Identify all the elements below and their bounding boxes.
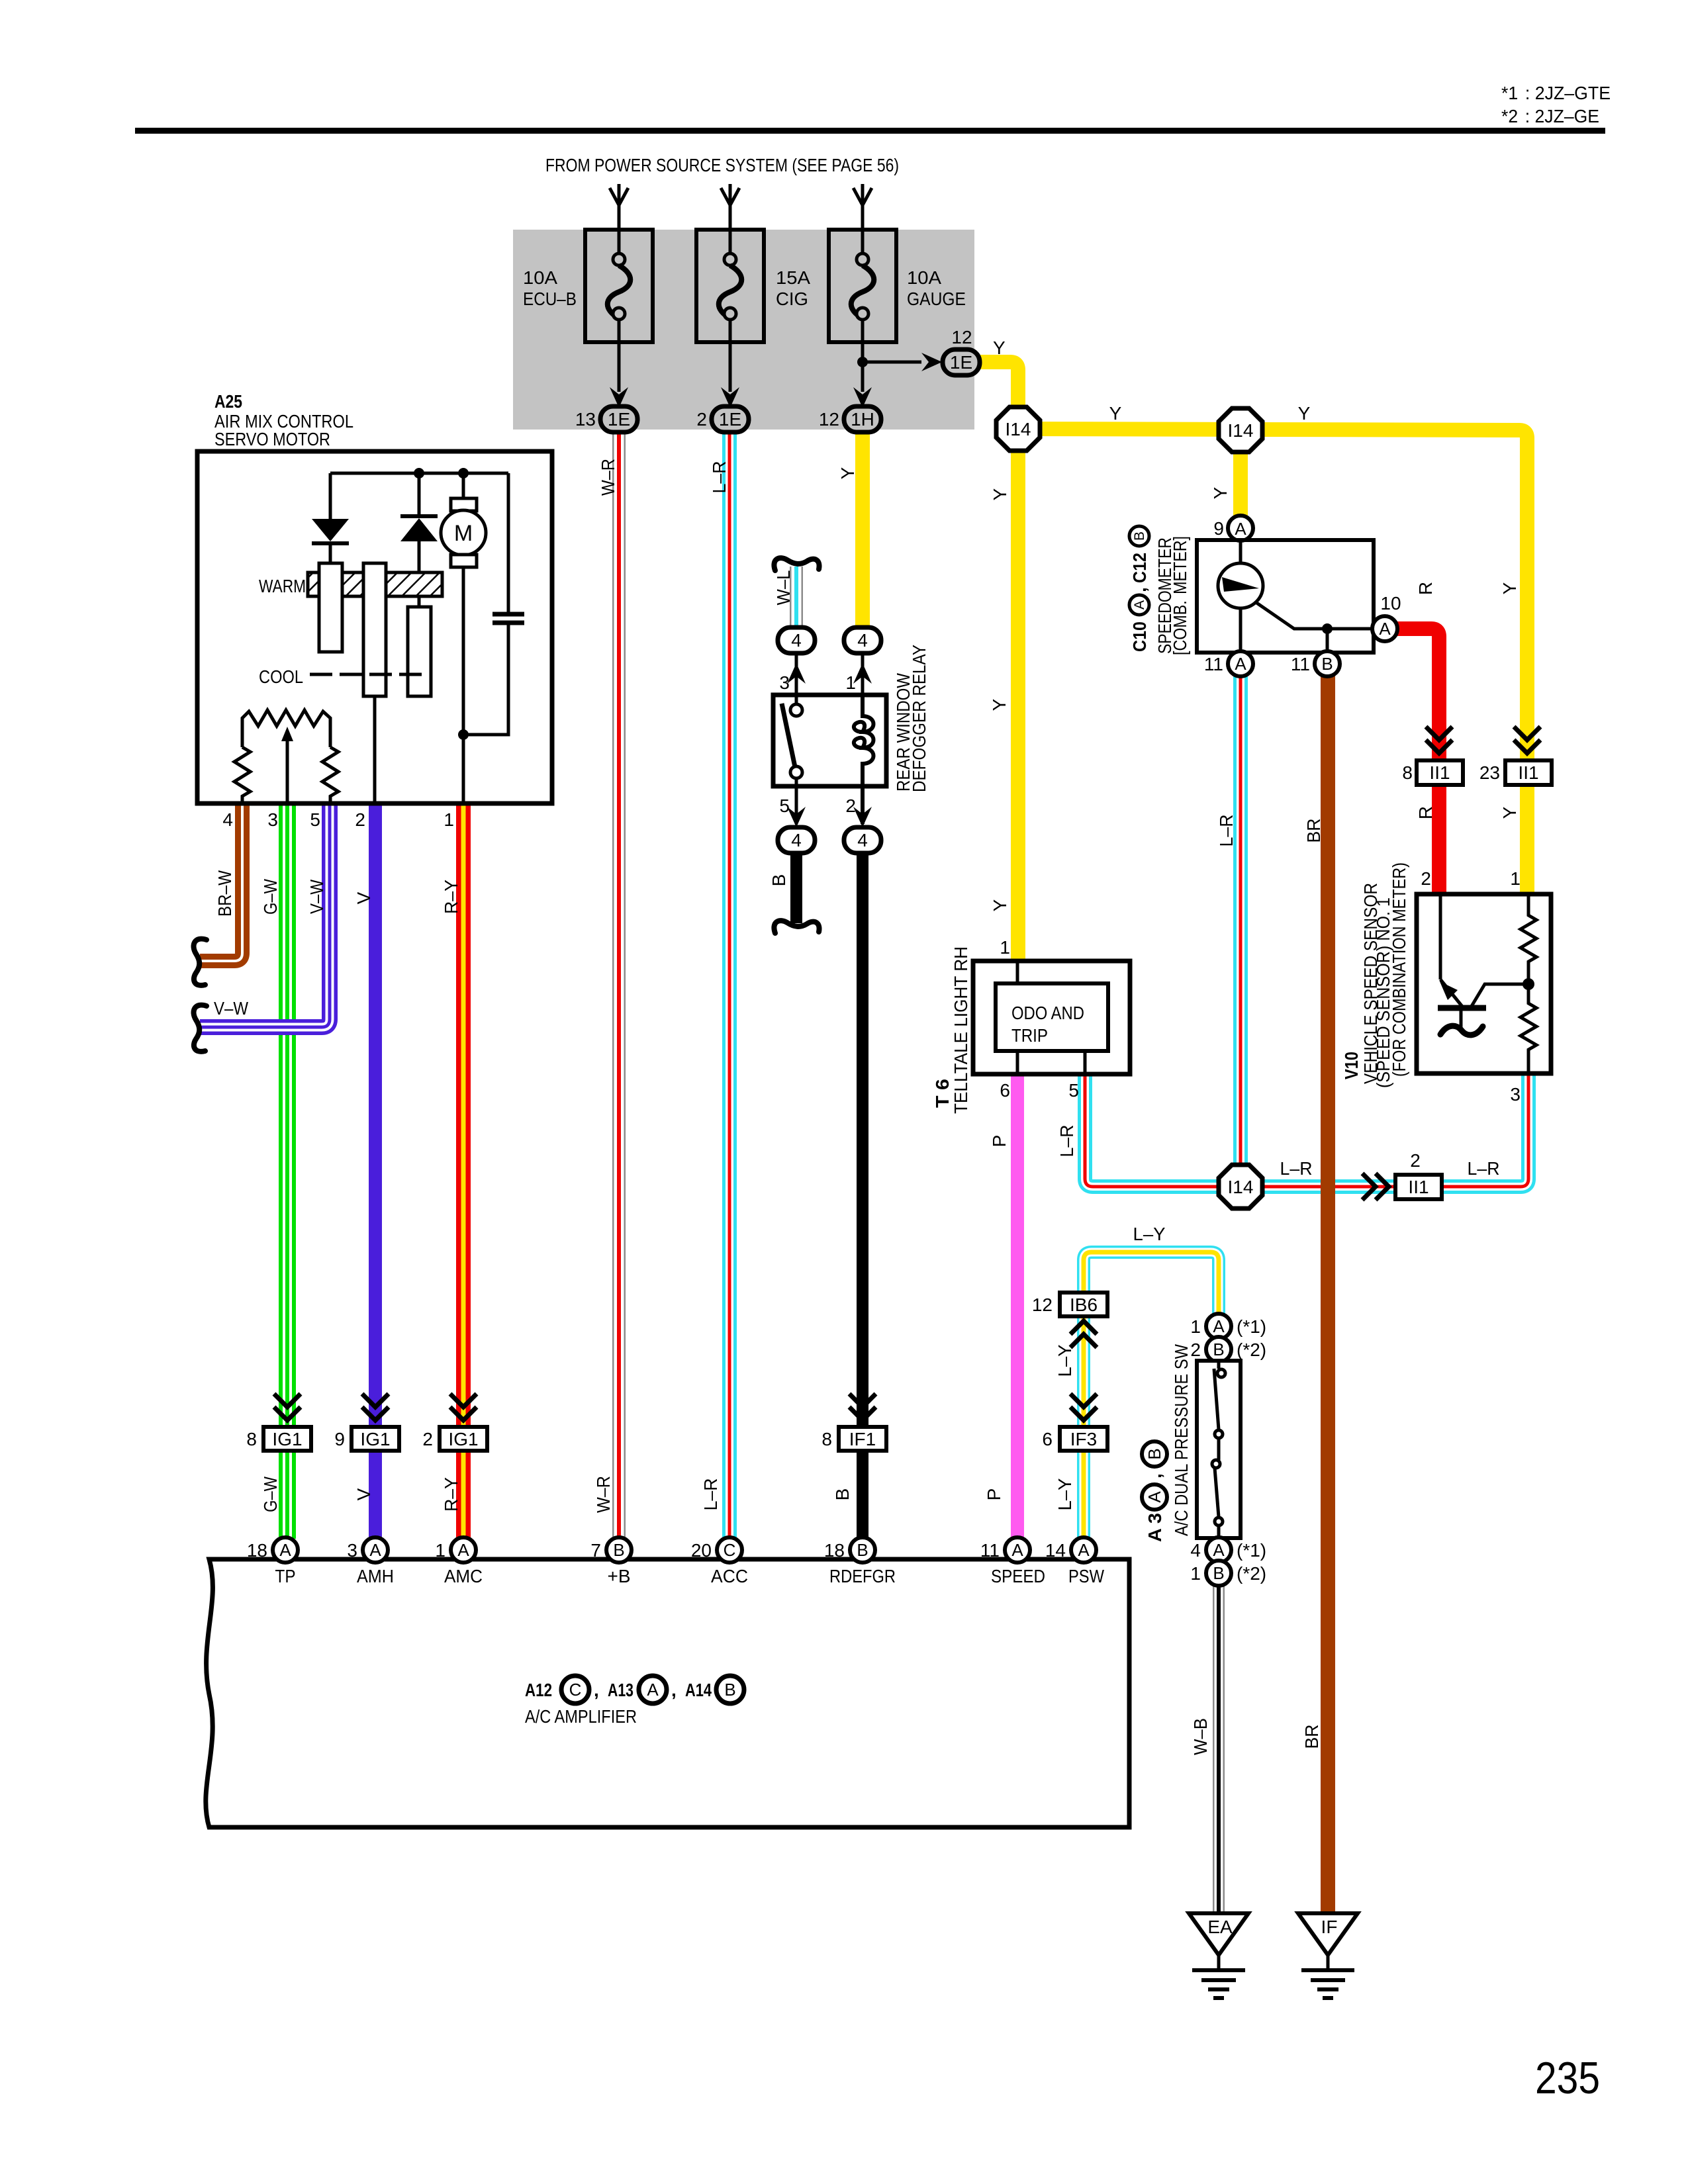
svg-text:R: R [1415, 582, 1436, 595]
svg-text:B: B [724, 1680, 735, 1700]
svg-text:A13: A13 [608, 1680, 633, 1700]
transistor base lead [1471, 984, 1528, 1007]
svg-text:T 6: T 6 [932, 1079, 953, 1108]
wire Y II1-23 to V10 pin 1 [1520, 785, 1534, 894]
wire T6 pin1 [1016, 961, 1019, 983]
potentiometer wiper arrow [286, 738, 289, 803]
svg-text:(FOR COMBINATION METER): (FOR COMBINATION METER) [1389, 862, 1409, 1077]
svg-text:A12: A12 [525, 1680, 552, 1700]
amplifier title A12 A13 A14 [525, 1676, 744, 1704]
amplifier pin 14A PSW [1071, 1537, 1096, 1563]
svg-text:10: 10 [1380, 593, 1401, 614]
svg-text:R: R [1415, 806, 1436, 819]
wire R-Y A25 pin1 to amplifier AMC [456, 803, 471, 1539]
amplifier pin 7B +B [606, 1537, 632, 1563]
wire BR-W A25 pin4 [200, 803, 242, 961]
wire gauge diagonal to 10A [1256, 602, 1378, 629]
svg-text:Y: Y [837, 467, 858, 479]
svg-text:6: 6 [1042, 1429, 1053, 1449]
svg-text:5: 5 [779, 796, 790, 816]
svg-text:IG1: IG1 [448, 1429, 478, 1449]
svg-text:B: B [769, 874, 789, 887]
svg-text:4: 4 [222, 809, 233, 830]
svg-text:R–Y: R–Y [441, 880, 461, 914]
slider right [408, 607, 431, 696]
svg-text:ECU–B: ECU–B [523, 289, 577, 309]
transistor emitter stem [1460, 1011, 1463, 1027]
A25 servo motor box [197, 451, 552, 803]
svg-text:12: 12 [951, 327, 972, 347]
svg-text:L–Y: L–Y [1133, 1224, 1166, 1244]
svg-text:2: 2 [696, 409, 707, 430]
break symbol B bottom [774, 921, 819, 933]
svg-text:4: 4 [857, 630, 868, 651]
pressure switch internals [1212, 1361, 1225, 1538]
svg-text:235: 235 [1535, 2053, 1600, 2103]
capacitor C plates [492, 614, 524, 623]
svg-text:1: 1 [444, 809, 454, 830]
wire Y fuse GAUGE to I14 junction [976, 362, 1018, 961]
svg-text:A: A [369, 1540, 381, 1560]
svg-text:A/C DUAL PRESSURE SW: A/C DUAL PRESSURE SW [1171, 1344, 1192, 1536]
svg-text:12: 12 [819, 409, 839, 430]
relay switch contact bottom [790, 766, 802, 778]
ground EA [1189, 1913, 1248, 1998]
svg-text:4: 4 [791, 830, 802, 850]
wire odo pin5 [1084, 1051, 1087, 1074]
connector box II1-8 [1417, 760, 1463, 785]
node A25 top1 [414, 468, 424, 478]
svg-text:A: A [1078, 1540, 1090, 1560]
svg-text:SERVO MOTOR: SERVO MOTOR [214, 429, 330, 449]
svg-text:1E: 1E [608, 409, 630, 430]
svg-text:SPEED: SPEED [991, 1566, 1045, 1586]
svg-text:V–W: V–W [306, 880, 327, 914]
wire diode2 branch [418, 473, 421, 516]
wire L-R speedometer 11A to I14 [1233, 675, 1248, 1187]
amplifier pin 3A AMH [363, 1537, 388, 1563]
svg-text:RDEFGR: RDEFGR [829, 1566, 896, 1586]
svg-text:BR–W: BR–W [214, 870, 235, 917]
svg-text:18: 18 [247, 1540, 267, 1561]
wire oval to relay pin3 [795, 652, 798, 695]
amplifier pin 11A SPEED [1005, 1537, 1030, 1563]
cool dashed line [310, 673, 424, 676]
svg-text:I14: I14 [1006, 419, 1031, 439]
wire B relay pin5 stub [790, 852, 802, 923]
wire node to 11B [1326, 629, 1329, 653]
resistor R2 V10 [1521, 984, 1536, 1073]
svg-text:B: B [832, 1488, 853, 1501]
transistor base bar [1438, 1005, 1486, 1011]
chevron right into II1-2 [1362, 1173, 1389, 1200]
wire L-Y IB6 up over to pressure switch pin A [1084, 1252, 1219, 1315]
svg-text:8: 8 [246, 1429, 257, 1449]
wire top bus in A25 [330, 472, 508, 475]
svg-text:(*2): (*2) [1237, 1563, 1266, 1584]
svg-text:13: 13 [575, 409, 596, 430]
svg-text:TP: TP [275, 1566, 296, 1586]
svg-text:1: 1 [435, 1540, 445, 1561]
wire slider middle to pin2 [373, 696, 377, 803]
svg-text:G–W: G–W [260, 879, 281, 915]
svg-text:9: 9 [334, 1429, 345, 1449]
relay switch contact top [795, 695, 798, 704]
svg-text:2: 2 [1421, 868, 1431, 889]
svg-text:C: C [569, 1680, 582, 1700]
connector box IF3-6 [1060, 1427, 1107, 1451]
svg-text:+B: +B [608, 1566, 631, 1586]
potentiometer track [242, 710, 330, 747]
capacitor branch wire [463, 473, 508, 735]
fuse GAUGE feed wire [853, 184, 872, 254]
svg-text:*1 : 2JZ–GTE: *1 : 2JZ–GTE [1501, 83, 1611, 103]
node motor-capacitor [458, 729, 469, 740]
svg-text:L–Y: L–Y [1055, 1478, 1075, 1510]
svg-text:C12: C12 [1129, 553, 1150, 583]
svg-text:AMH: AMH [357, 1566, 394, 1586]
arrowhead into 1E-12 [921, 353, 942, 371]
wire BR speedometer 11B to IF ground [1321, 675, 1335, 1913]
transistor collector wire [1439, 894, 1442, 979]
svg-text:15A: 15A [776, 267, 810, 288]
telltale T6 box [973, 961, 1130, 1074]
svg-text:R–Y: R–Y [441, 1477, 461, 1512]
resistor R1 V10 [1521, 894, 1536, 984]
svg-text:A: A [1235, 519, 1246, 539]
diode D2 up [400, 514, 438, 518]
svg-text:B: B [1145, 1448, 1164, 1459]
svg-text:3: 3 [267, 809, 278, 830]
chevron down into IG1-9 [362, 1394, 389, 1420]
svg-text:V–W: V–W [214, 998, 248, 1019]
svg-text:B: B [1213, 1563, 1224, 1583]
junction octagon I14 third [1219, 1165, 1262, 1208]
svg-text:Y: Y [1499, 806, 1520, 819]
relay switch blade [782, 704, 795, 767]
svg-text:TRIP: TRIP [1011, 1025, 1048, 1046]
speedometer box [1197, 540, 1374, 653]
connector box IG1-2 [440, 1427, 487, 1451]
arrowhead down pin5 [787, 807, 806, 827]
wire P telltale pin6 to amplifier SPEED [1011, 1074, 1024, 1539]
svg-text:AMC: AMC [444, 1566, 483, 1586]
svg-text:2: 2 [845, 796, 856, 816]
svg-text:Y: Y [990, 488, 1010, 500]
svg-text:A 3: A 3 [1145, 1513, 1165, 1542]
chevron down into IF1-8 [849, 1394, 876, 1420]
svg-text:A: A [1011, 1540, 1023, 1560]
wire L-Y IB6 down to amplifier PSW [1077, 1316, 1090, 1539]
arrowhead into 1E-2 [721, 387, 739, 408]
connector box IG1-8 [263, 1427, 311, 1451]
svg-text:4: 4 [857, 830, 868, 850]
connector oval 4 left-bottom [778, 827, 815, 853]
chevron up below IB6 [1070, 1321, 1097, 1347]
svg-text:Y: Y [1210, 486, 1231, 499]
svg-text:ACC: ACC [711, 1566, 748, 1586]
svg-text:W–R: W–R [598, 459, 618, 496]
svg-text:IF: IF [1321, 1917, 1338, 1937]
svg-text:IF3: IF3 [1070, 1429, 1097, 1449]
svg-text:2: 2 [1410, 1150, 1421, 1171]
svg-text:EA: EA [1207, 1917, 1233, 1937]
wire branch to 1E-12 [863, 361, 921, 364]
slider middle [363, 563, 386, 696]
connector box IG1-9 [352, 1427, 399, 1451]
pressure switch circle B top [1206, 1337, 1231, 1362]
svg-text:IB6: IB6 [1070, 1295, 1098, 1315]
arrowhead into 1H-12 [853, 387, 872, 408]
svg-text:Y: Y [989, 698, 1009, 711]
svg-text:L–Y: L–Y [1055, 1344, 1075, 1377]
svg-text:*2 : 2JZ–GE: *2 : 2JZ–GE [1501, 106, 1599, 126]
svg-text:7: 7 [590, 1540, 601, 1561]
wire L-R fuse 1E-2 to amplifier ACC [722, 431, 737, 1539]
svg-text:W–L: W–L [773, 570, 794, 606]
svg-text:WARM: WARM [259, 576, 306, 596]
svg-text:20: 20 [691, 1540, 712, 1561]
wire Y I14 down to speedometer pin 9A [1233, 430, 1248, 517]
wire V-W A25 pin5 [200, 803, 330, 1027]
junction octagon I14 second [1219, 408, 1262, 452]
amplifier pin 18A TP [273, 1537, 298, 1563]
speedometer rotated title C10 C12 [1129, 526, 1150, 652]
pressure switch box [1197, 1361, 1241, 1538]
pressure switch circle A top [1206, 1314, 1231, 1339]
ground IF [1298, 1913, 1358, 1998]
svg-text:L–R: L–R [1280, 1158, 1313, 1179]
wire oval to relay pin1 [861, 652, 865, 695]
amplifier pin 20C ACC [717, 1537, 742, 1563]
relay box [773, 695, 886, 786]
resistor R-right zigzag [322, 747, 338, 803]
svg-text:II1: II1 [1408, 1177, 1429, 1197]
slider left [319, 563, 342, 652]
odo and trip box [996, 983, 1108, 1051]
break symbol V-W end [194, 1005, 207, 1052]
power source shaded block [513, 230, 974, 430]
resistor R-left zigzag [234, 747, 250, 803]
junction node on GAUGE wire [857, 357, 868, 367]
svg-text:DEFOGGER RELAY: DEFOGGER RELAY [909, 645, 929, 792]
svg-text:(*2): (*2) [1237, 1340, 1266, 1360]
wire W-L stub above defogger relay [790, 567, 803, 628]
svg-text:L–R: L–R [1216, 815, 1237, 847]
speedometer pin circle 11B [1315, 651, 1340, 676]
svg-text:3: 3 [779, 672, 790, 693]
pressure switch circle A bottom [1206, 1537, 1231, 1563]
svg-text:[COMB. METER]: [COMB. METER] [1170, 536, 1190, 655]
svg-text:A: A [647, 1680, 659, 1700]
svg-text:5: 5 [310, 809, 320, 830]
wire V A25 pin2 to amplifier AMH [369, 803, 382, 1539]
svg-text:3: 3 [1510, 1084, 1521, 1105]
svg-text:I14: I14 [1228, 1177, 1254, 1197]
svg-text:1: 1 [1000, 937, 1010, 958]
wire odo pin6 [1016, 1051, 1019, 1074]
svg-text:M: M [454, 521, 473, 546]
svg-text:L–R: L–R [700, 1479, 721, 1511]
svg-text:C10: C10 [1129, 621, 1150, 652]
svg-text:IF1: IF1 [849, 1429, 876, 1449]
break symbol BR-W end [194, 939, 207, 985]
V10 speed sensor box [1417, 894, 1551, 1073]
svg-text:,: , [1129, 587, 1150, 592]
WIRES-LAYER [200, 362, 1528, 1913]
wire left branch [329, 473, 332, 519]
AC squiggle [1440, 1026, 1483, 1035]
speedometer pin circle 11A [1228, 651, 1253, 676]
svg-text:II1: II1 [1429, 762, 1450, 783]
connector oval 4 right-bottom [844, 827, 881, 853]
wire W-R fuse 1E-13 to amplifier +B [612, 431, 626, 1539]
svg-text:A25: A25 [214, 391, 242, 412]
speedometer needle [1222, 577, 1259, 592]
svg-text:B: B [1213, 1340, 1224, 1359]
svg-text:G–W: G–W [260, 1477, 281, 1512]
svg-text:Y: Y [1109, 403, 1122, 424]
node V10 [1523, 978, 1534, 990]
svg-text:A14: A14 [685, 1680, 712, 1700]
svg-text:GAUGE: GAUGE [907, 289, 966, 309]
connector oval 1E-12 [943, 349, 980, 375]
wire Y I14 to I14 to right vertical [1018, 429, 1527, 760]
svg-text:P: P [984, 1488, 1004, 1501]
svg-text:3: 3 [347, 1540, 357, 1561]
svg-text:A: A [1145, 1491, 1164, 1503]
pressure switch rotated title [1142, 1441, 1167, 1542]
wire G-W A25 pin3 to amplifier TP [279, 803, 296, 1539]
svg-text:14: 14 [1045, 1540, 1066, 1561]
svg-text:A: A [1235, 654, 1246, 674]
svg-text:2: 2 [355, 809, 365, 830]
speedometer pin circle 10A [1372, 616, 1397, 641]
svg-text:B: B [1321, 654, 1333, 674]
svg-text:A: A [1213, 1540, 1225, 1560]
svg-text:CIG: CIG [776, 289, 808, 309]
wire B relay pin2 to amplifier RDEFGR [857, 852, 868, 1539]
arrowhead into 1E-13 [610, 387, 628, 408]
connector oval 1E-13 [600, 406, 637, 432]
svg-text:P: P [989, 1135, 1009, 1148]
svg-text:C: C [724, 1540, 736, 1560]
wire 9A to gauge [1239, 539, 1243, 564]
svg-text:4: 4 [791, 630, 802, 651]
svg-text:11: 11 [1291, 654, 1310, 674]
svg-text:1H: 1H [851, 409, 874, 430]
chevron into II1-8 [1426, 727, 1452, 753]
svg-text:8: 8 [821, 1429, 832, 1449]
svg-text:A: A [457, 1540, 469, 1560]
svg-text:A: A [1379, 619, 1391, 639]
connector oval 4 left-top [778, 627, 815, 653]
svg-text:6: 6 [1000, 1080, 1010, 1101]
chevron into II1-23 [1514, 727, 1540, 753]
wire gauge to 11A [1239, 608, 1243, 653]
svg-text:8: 8 [1402, 762, 1413, 783]
wire R speedometer 10A to II1-8 to V10 pin2 [1396, 629, 1439, 760]
header rule [135, 128, 1605, 134]
svg-text:,: , [1145, 1473, 1165, 1479]
svg-text:B: B [857, 1540, 868, 1560]
fuse 10A ECU-B [585, 230, 653, 392]
TEXT-LAYER [214, 83, 1611, 2103]
svg-text:V: V [353, 891, 374, 904]
break symbol W-L top [774, 558, 819, 570]
svg-text:FROM POWER SOURCE SYSTEM (SEE: FROM POWER SOURCE SYSTEM (SEE PAGE 56) [545, 155, 899, 175]
junction octagon I14 first [996, 407, 1040, 451]
connector oval 4 right-top [844, 627, 881, 653]
wire W-B pressure switch to EA ground [1213, 1584, 1225, 1913]
svg-text:18: 18 [824, 1540, 845, 1561]
pressure switch circle B bottom [1206, 1561, 1231, 1586]
amplifier box [206, 1559, 1129, 1827]
svg-text:Y: Y [993, 338, 1006, 358]
svg-text:Y: Y [990, 899, 1010, 911]
svg-text:1: 1 [845, 672, 856, 693]
wire L-R telltale pin5 to I14 to II1-2 to V10 pin3 [1085, 1063, 1528, 1187]
svg-text:TELLTALE LIGHT RH: TELLTALE LIGHT RH [951, 946, 971, 1114]
svg-text:IG1: IG1 [272, 1429, 302, 1449]
svg-text:B: B [1132, 531, 1147, 541]
chevron down into IF3 [1070, 1394, 1097, 1420]
fuse CIG feed wire [721, 184, 739, 254]
connector oval 1H-12 [844, 406, 881, 432]
motor M branch [462, 473, 465, 500]
connector box IB6-12 [1060, 1293, 1107, 1316]
svg-text:5: 5 [1068, 1080, 1079, 1101]
wire Y fuse 1H to defogger relay oval [855, 431, 870, 628]
node speedometer [1322, 623, 1333, 634]
connector oval 1E-2 [712, 406, 749, 432]
svg-text:12: 12 [1032, 1295, 1053, 1315]
svg-text:A: A [279, 1540, 291, 1560]
chevron down into IG1-8 [274, 1394, 301, 1420]
svg-text:W–R: W–R [593, 1476, 614, 1513]
svg-text:V10: V10 [1341, 1052, 1362, 1079]
connector box IF1-8 [839, 1427, 886, 1451]
svg-text:,: , [671, 1680, 677, 1700]
fuse 10A GAUGE [829, 230, 896, 392]
svg-text:Y: Y [1298, 403, 1311, 424]
svg-text:11: 11 [980, 1540, 1000, 1561]
svg-text:II1: II1 [1518, 762, 1538, 783]
svg-text:9: 9 [1213, 518, 1224, 539]
connector box II1-2 [1395, 1175, 1442, 1199]
svg-text:23: 23 [1479, 762, 1500, 783]
svg-text:10A: 10A [907, 267, 941, 288]
arrowhead up pin3 [787, 663, 806, 684]
speedometer gauge circle [1218, 563, 1263, 608]
svg-text:2: 2 [1190, 1340, 1201, 1360]
svg-text:W–B: W–B [1190, 1718, 1211, 1755]
svg-text:Y: Y [1499, 582, 1520, 594]
heater resistor track [308, 572, 442, 596]
svg-text:,: , [594, 1680, 599, 1700]
svg-text:BR: BR [1303, 819, 1324, 843]
chevron down into IG1-2 [450, 1394, 477, 1420]
relay coil [854, 695, 874, 824]
svg-text:BR: BR [1301, 1725, 1322, 1749]
svg-text:(*1): (*1) [1237, 1316, 1266, 1337]
svg-text:ODO AND: ODO AND [1011, 1003, 1084, 1023]
svg-text:(*1): (*1) [1237, 1540, 1266, 1561]
svg-text:10A: 10A [523, 267, 557, 288]
svg-text:PSW: PSW [1068, 1566, 1104, 1586]
svg-text:2: 2 [422, 1429, 433, 1449]
svg-text:11: 11 [1204, 654, 1223, 674]
